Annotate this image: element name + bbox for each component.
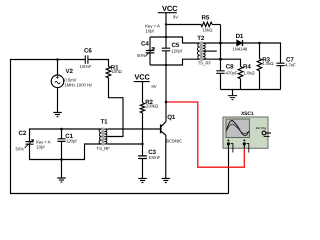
wire T2 sec bottom lead to R4 <box>203 59 241 66</box>
transformer T1 <box>97 119 111 152</box>
resistor R4 <box>238 64 255 90</box>
wire red probe B <box>166 102 244 167</box>
svg-text:D1: D1 <box>236 33 244 40</box>
junction C4 rail <box>165 36 167 38</box>
wire C4 branch top <box>150 37 200 43</box>
capacitor C6 <box>80 48 93 70</box>
ground C3 <box>138 178 146 182</box>
svg-text:C6: C6 <box>84 48 92 55</box>
junction C1 top <box>60 128 63 131</box>
wire top input net <box>10 59 85 61</box>
capacitor C4 variable <box>137 23 160 65</box>
resistor R5 <box>166 15 221 33</box>
svg-text:120pf: 120pf <box>66 139 77 144</box>
wire T1 bottom-right lead <box>108 143 143 145</box>
diode D1 <box>232 33 247 52</box>
capacitor C7 <box>276 56 296 89</box>
wire T2 sec mid lead dangling <box>203 50 217 52</box>
svg-text:TS_RF: TS_RF <box>198 61 212 66</box>
svg-text:R5: R5 <box>202 15 210 22</box>
wire R2/C3 vertical <box>142 113 144 156</box>
svg-text:1.0kΩ: 1.0kΩ <box>262 61 274 66</box>
VCC symbol R2 <box>134 73 158 103</box>
wire R5 right down to C8 <box>220 25 222 71</box>
svg-text:1.0kΩ: 1.0kΩ <box>244 71 256 76</box>
ground V2 <box>53 113 61 117</box>
svg-text:VCC: VCC <box>134 73 150 82</box>
svg-text:Q1: Q1 <box>167 114 176 121</box>
svg-text:TS_RF: TS_RF <box>97 146 111 151</box>
ground C1 <box>57 178 65 182</box>
wire T1 left top lead / tank rail <box>30 129 102 141</box>
wire VCC down to C5 <box>165 13 167 48</box>
transistor Q1 <box>161 114 182 143</box>
wire C6 right to R1 <box>88 60 109 67</box>
capacitor C3 <box>138 149 160 179</box>
resistor R1 <box>106 65 122 78</box>
svg-text:BC548C: BC548C <box>166 138 182 143</box>
wire R1 to T1 secondary tap <box>108 78 123 137</box>
svg-text:330kΩ: 330kΩ <box>146 104 159 109</box>
svg-text:VCC: VCC <box>162 4 178 13</box>
svg-text:10kΩ: 10kΩ <box>203 28 214 33</box>
ground detector <box>228 90 237 100</box>
svg-text:V2: V2 <box>66 68 74 75</box>
wire Q1 emitter down <box>165 135 167 178</box>
svg-text:C8: C8 <box>226 64 234 71</box>
svg-text:Ext Trig: Ext Trig <box>256 126 267 130</box>
svg-text:9V: 9V <box>151 84 157 89</box>
resistor R2 <box>140 99 159 113</box>
junction red probe <box>165 101 168 104</box>
ground Q1 emitter <box>162 178 170 182</box>
wire D1 cathode to C7 <box>243 43 281 63</box>
scope pins A <box>227 142 230 145</box>
capacitor C8 <box>216 64 238 90</box>
V2 source <box>51 60 92 113</box>
wire T1 top lead to Q1 base <box>108 128 161 130</box>
capacitor C2 variable <box>16 130 51 152</box>
svg-text:9V: 9V <box>173 14 179 19</box>
svg-text:50%: 50% <box>137 53 146 58</box>
wire bottom bus <box>10 193 229 195</box>
svg-text:T1: T1 <box>101 119 109 126</box>
junction V2 top <box>56 58 59 61</box>
junction R3 top <box>258 42 261 45</box>
wire C5 bottom to collector <box>165 51 167 122</box>
wire T2 sec top lead to D1 <box>203 42 237 44</box>
svg-text:470pF: 470pF <box>226 71 238 76</box>
junction C4 bottom rail <box>165 64 167 66</box>
wire scope A down <box>228 148 230 193</box>
oscilloscope XSC1 <box>223 111 271 153</box>
wire detector ground rail <box>221 89 281 91</box>
transformer T2 <box>197 35 211 66</box>
svg-text:100nF: 100nF <box>80 64 92 69</box>
svg-text:10pf: 10pf <box>146 28 155 33</box>
junction R5/R4 line <box>219 58 222 61</box>
svg-text:120pf: 120pf <box>171 49 182 54</box>
svg-text:C4: C4 <box>141 40 149 47</box>
svg-text:XSC1: XSC1 <box>241 111 254 117</box>
svg-text:10pf: 10pf <box>36 145 45 150</box>
wire C2 bottom / tank bottom rail <box>30 144 102 160</box>
svg-text:100Ω: 100Ω <box>112 69 123 74</box>
VCC symbol main <box>158 4 179 20</box>
junction R2-T1 lead <box>141 143 143 145</box>
wire left drop <box>10 59 12 194</box>
svg-text:T2: T2 <box>197 35 205 42</box>
resistor R3 <box>257 43 274 90</box>
capacitor C5 <box>162 42 183 54</box>
svg-text:1MHz 1000 Hz: 1MHz 1000 Hz <box>64 83 92 88</box>
capacitor C1 <box>58 129 78 178</box>
wire C4 branch bottom <box>150 59 200 65</box>
junction R5/D1 line <box>219 42 222 45</box>
svg-text:100nF: 100nF <box>148 155 160 160</box>
scope pins B <box>243 142 246 145</box>
svg-text:50%: 50% <box>16 147 25 152</box>
svg-text:C2: C2 <box>19 130 27 137</box>
svg-text:1N4148: 1N4148 <box>232 47 247 52</box>
svg-text:4.7nF: 4.7nF <box>285 62 296 67</box>
junction C1 bottom rail <box>60 158 63 161</box>
junction R5 tap <box>165 23 167 25</box>
